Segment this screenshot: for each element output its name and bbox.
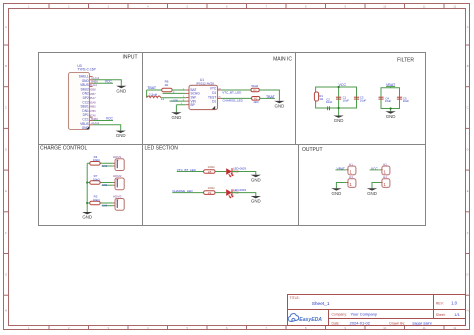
wire center: [338, 87, 340, 116]
svg-text:CHARGE_LED: CHARGE_LED: [223, 98, 244, 102]
ground: [251, 175, 261, 183]
svg-text:D1: D1: [212, 91, 216, 95]
svg-text:B6A7: B6A7: [89, 96, 96, 100]
section box FILTER: [296, 53, 426, 145]
svg-text:G: G: [5, 273, 7, 277]
ground: [367, 188, 377, 196]
header H3: [346, 175, 356, 187]
wire to U1 VIN: [170, 100, 186, 102]
svg-text:VCC: VCC: [339, 83, 347, 87]
svg-text:Drawn By:: Drawn By:: [389, 322, 405, 326]
svg-text:INPUT: INPUT: [123, 54, 138, 60]
section box CHARGE CONTROL: [39, 145, 143, 226]
wire VBAT loop to ground: [390, 109, 392, 112]
wire LED1 to ground: [232, 172, 256, 175]
svg-text:B7A6: B7A6: [89, 113, 96, 117]
svg-text:Sheet_1: Sheet_1: [312, 301, 330, 307]
svg-text:VTC: VTC: [210, 87, 217, 91]
svg-text:B5A8: B5A8: [89, 100, 96, 104]
svg-text:D: D: [5, 147, 7, 151]
wire U3 GND bottom: [93, 125, 121, 131]
svg-text:1.0: 1.0: [451, 301, 457, 306]
svg-text:51kΩ: 51kΩ: [251, 84, 259, 88]
wire LED2 to ground: [232, 193, 256, 196]
wire R6 to U1 BAT: [172, 89, 186, 91]
svg-text:C: C: [5, 106, 7, 110]
wire U1 BP to ground: [176, 105, 185, 113]
svg-text:LED SECTION: LED SECTION: [145, 146, 179, 152]
charge control bus wire: [86, 163, 88, 212]
ground: [171, 112, 181, 120]
svg-text:TYPE-C-16P: TYPE-C-16P: [77, 68, 95, 72]
svg-text:CH1: CH1: [102, 165, 108, 168]
inductor L1: [147, 96, 161, 98]
ground: [251, 196, 261, 204]
filter VCC loop wires: [316, 87, 357, 108]
svg-text:Date:: Date:: [332, 322, 340, 326]
section box OUTPUT: [299, 145, 426, 226]
svg-text:VCC: VCC: [105, 80, 113, 84]
svg-text:12: 12: [453, 326, 456, 330]
capacitor C5: [397, 97, 402, 99]
title block: [288, 295, 466, 326]
svg-text:1: 1: [383, 182, 386, 187]
section box LED SECTION: [143, 145, 299, 226]
svg-text:Your Company: Your Company: [351, 312, 377, 317]
svg-text:11: 11: [423, 4, 426, 8]
svg-text:REV:: REV:: [436, 302, 444, 306]
wire R2 to TBAT: [260, 97, 275, 99]
transistor Q3 HDM3: [102, 195, 125, 211]
ground: [274, 101, 284, 109]
resistor R8: [204, 170, 215, 174]
svg-text:R9: R9: [208, 191, 212, 195]
svg-text:VTC_BT_LED: VTC_BT_LED: [222, 90, 242, 94]
resistor R2: [252, 97, 260, 101]
svg-text:10kΩ: 10kΩ: [93, 177, 101, 181]
svg-text:LION: LION: [172, 99, 178, 103]
svg-text:100Ω: 100Ω: [208, 165, 216, 169]
svg-text:H: H: [467, 309, 469, 313]
svg-text:1: 1: [349, 182, 352, 187]
svg-text:10uF: 10uF: [360, 98, 367, 102]
resistor R4: [87, 162, 113, 164]
svg-text:11: 11: [423, 326, 426, 330]
svg-text:VCC: VCC: [371, 167, 379, 171]
svg-text:B12A1: B12A1: [89, 83, 97, 87]
header H2: [380, 163, 390, 175]
wire R5 to ground: [259, 90, 279, 101]
svg-text:HDM1: HDM1: [113, 155, 122, 159]
EasyEDA logo: [288, 314, 322, 324]
wire R9 to LED2: [215, 192, 226, 194]
wire H3 to ground: [336, 183, 346, 189]
pin numbers U1: [181, 88, 222, 105]
svg-text:1kΩ: 1kΩ: [253, 100, 259, 104]
wire TBAT to R6: [147, 90, 162, 98]
capacitor C4: [379, 97, 384, 99]
svg-text:CH2: CH2: [102, 184, 108, 187]
svg-text:R8: R8: [208, 170, 212, 174]
wire U1 to R5: [221, 89, 251, 91]
svg-text:2024-01-02: 2024-01-02: [350, 321, 371, 326]
resistor R6: [162, 88, 172, 92]
resistor R3: [87, 202, 113, 204]
wire to R8: [177, 171, 204, 173]
svg-text:10uF: 10uF: [343, 98, 350, 102]
svg-text:OUTPUT: OUTPUT: [302, 147, 323, 153]
svg-text:FILTER: FILTER: [397, 58, 414, 64]
svg-text:1: 1: [383, 169, 386, 174]
node junction: [338, 86, 340, 88]
wire U3 VCC bottom: [93, 120, 113, 122]
svg-text:B: B: [5, 64, 7, 68]
section box MAIN IC: [143, 53, 296, 145]
ground: [385, 111, 395, 119]
resistor R1: [314, 92, 318, 101]
capacitor C2: [328, 106, 330, 110]
svg-text:VBAT: VBAT: [337, 167, 345, 171]
ground: [333, 116, 343, 124]
svg-text:CHARGE CONTROL: CHARGE CONTROL: [40, 146, 87, 152]
header H1: [346, 163, 356, 175]
svg-text:EasyEDA: EasyEDA: [299, 317, 322, 323]
IC U1 IP5312: [186, 78, 221, 109]
filter VBAT loop wires: [381, 88, 400, 109]
svg-text:HDM3: HDM3: [113, 195, 122, 199]
svg-text:A6B7: A6B7: [89, 92, 96, 96]
wire L1 to U1 SW: [161, 97, 186, 99]
svg-text:10: 10: [383, 326, 386, 330]
svg-text:12: 12: [453, 4, 456, 8]
svg-text:D1: D1: [212, 99, 216, 103]
svg-text:VCC: VCC: [106, 117, 114, 121]
LED D2: [226, 189, 233, 198]
svg-text:C: C: [467, 106, 469, 110]
corner mark U3: [86, 126, 89, 129]
wire U1 to R2: [221, 97, 252, 99]
svg-text:A7B6: A7B6: [89, 109, 96, 113]
svg-text:E: E: [467, 189, 469, 193]
svg-text:10uF: 10uF: [403, 99, 410, 103]
svg-text:H: H: [5, 309, 7, 313]
svg-text:1/1: 1/1: [454, 312, 460, 317]
svg-text:IP5312-AV28: IP5312-AV28: [196, 81, 214, 85]
ground: [331, 188, 341, 196]
svg-text:HDM2: HDM2: [113, 174, 122, 178]
svg-text:1: 1: [349, 169, 352, 174]
svg-text:R5: R5: [253, 88, 257, 92]
svg-text:10: 10: [383, 4, 386, 8]
wire to U1 SCHG: [163, 92, 186, 94]
resistor R9: [204, 191, 215, 195]
svg-text:MAIN IC: MAIN IC: [273, 56, 292, 62]
transistor Q2 HDM2: [102, 174, 125, 190]
wire U3 GND top: [93, 80, 122, 86]
svg-text:A5B8: A5B8: [89, 88, 96, 92]
svg-text:Company:: Company:: [332, 313, 348, 317]
svg-text:CH3: CH3: [102, 205, 108, 208]
pin stubs U1: [186, 90, 221, 105]
svg-text:10uF: 10uF: [385, 99, 392, 103]
wire to R9: [172, 192, 203, 194]
transistor Q1 HDM1: [102, 155, 125, 171]
header H4: [380, 175, 390, 187]
resistor R7: [87, 182, 113, 184]
pin numbers U3: [91, 76, 100, 125]
svg-text:1Ω: 1Ω: [319, 97, 323, 101]
svg-text:100Ω: 100Ω: [208, 186, 216, 190]
svg-text:sagar saini: sagar saini: [412, 321, 431, 326]
svg-text:A: A: [467, 25, 469, 29]
resistor R5: [251, 88, 259, 92]
svg-text:TITLE:: TITLE:: [290, 296, 300, 300]
ground: [82, 212, 92, 220]
svg-text:2.2uH: 2.2uH: [149, 92, 157, 96]
section box INPUT: [39, 53, 143, 145]
svg-text:TBAT: TBAT: [266, 95, 276, 99]
wire R8 to LED1: [215, 171, 226, 173]
ground: [116, 86, 126, 94]
svg-text:A: A: [5, 25, 7, 29]
ground: [116, 131, 126, 139]
capacitor C1: [336, 97, 341, 99]
svg-text:10uF: 10uF: [326, 100, 333, 104]
svg-text:D: D: [467, 147, 469, 151]
svg-text:E: E: [5, 189, 7, 193]
svg-text:A8B5: A8B5: [89, 105, 96, 109]
svg-text:10kΩ: 10kΩ: [93, 158, 101, 162]
wire U3 VCC top: [93, 82, 113, 84]
pin stubs U3: [90, 76, 93, 124]
capacitor C3: [354, 97, 359, 99]
connector U3 TYPE-C: [69, 64, 100, 130]
LED D1: [226, 168, 233, 177]
svg-text:B: B: [467, 64, 469, 68]
wire H4 to ground: [372, 183, 380, 189]
svg-text:Sheet:: Sheet:: [436, 313, 446, 317]
svg-text:G: G: [467, 273, 469, 277]
svg-text:BP: BP: [191, 103, 195, 107]
svg-text:10kΩ: 10kΩ: [93, 198, 101, 202]
